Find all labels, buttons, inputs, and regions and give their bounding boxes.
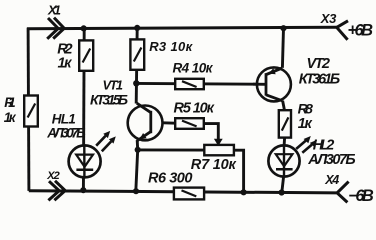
LED HL1 — [69, 145, 101, 177]
resistor R1 — [24, 96, 38, 127]
svg-text:R4 10к: R4 10к — [173, 61, 214, 76]
svg-text:1к: 1к — [298, 116, 313, 132]
svg-text:1к: 1к — [58, 56, 73, 72]
resistor R6 — [174, 188, 204, 200]
wire VT2 collector to R8 — [283, 101, 285, 111]
wire R5 to R7 wiper — [204, 124, 219, 140]
LED HL2 — [268, 145, 299, 176]
junction node VT1 emitter/R7 — [135, 147, 141, 153]
svg-text:R1: R1 — [4, 95, 16, 110]
svg-text:X1: X1 — [47, 3, 61, 18]
junction node R3/top rail — [134, 25, 140, 31]
wire R7 right lead down — [234, 150, 244, 192]
svg-text:−6В: −6В — [348, 187, 374, 205]
transistor VT2 (PNP KT361B) — [253, 67, 291, 101]
junction node HL2/bottom rail — [279, 189, 285, 195]
connector X1 chevrons — [47, 18, 64, 39]
wire R4 line to VT2 base — [136, 82, 266, 86]
svg-text:АЛ307Б: АЛ307Б — [46, 125, 86, 140]
svg-text:R5 10к: R5 10к — [174, 100, 215, 116]
junction node R3/R4/VT1 collector — [133, 80, 139, 86]
svg-text:X4: X4 — [324, 173, 339, 187]
LED HL2 emission arrows — [296, 136, 317, 153]
connector X2 chevrons — [48, 181, 65, 201]
wire R2/HL1 branch — [82, 28, 86, 190]
LED HL1 emission arrows — [96, 131, 116, 151]
svg-text:R7 10к: R7 10к — [191, 157, 237, 173]
svg-text:+6В: +6В — [348, 21, 374, 39]
resistor R3 — [130, 39, 144, 69]
svg-text:R6 300: R6 300 — [148, 171, 193, 187]
junction node R7/bottom rail — [241, 189, 247, 195]
resistor R5 — [175, 118, 204, 129]
potentiometer R7 track — [204, 145, 234, 155]
junction node VT1 emitter/bottom rail — [133, 188, 139, 194]
resistor R2 — [79, 40, 93, 70]
svg-text:R8: R8 — [298, 101, 314, 117]
svg-text:X3: X3 — [320, 11, 337, 26]
resistor R4 — [175, 79, 204, 89]
svg-text:1к: 1к — [4, 110, 17, 125]
wire R8 to HL2 — [283, 137, 286, 146]
wire bottom rail (-6V) — [29, 191, 337, 193]
wire R7 left lead — [138, 148, 205, 151]
junction node VT2 emitter/top rail — [280, 25, 286, 31]
connector X3 chevron — [337, 21, 348, 40]
junction node HL1/bottom rail — [80, 187, 86, 193]
svg-text:X2: X2 — [46, 170, 60, 182]
svg-text:АЛ307Б: АЛ307Б — [307, 152, 356, 168]
wire VT1 emitter down — [136, 140, 138, 191]
junction node R2/top rail — [81, 25, 87, 31]
potentiometer R7 wiper arrow — [214, 139, 223, 146]
svg-text:VT2: VT2 — [307, 56, 331, 72]
wire HL2 to bottom rail — [282, 177, 284, 193]
wire left rail — [27, 28, 31, 191]
wire VT1 base lead — [151, 121, 176, 125]
svg-text:R3 10к: R3 10к — [149, 39, 193, 54]
wire VT2 emitter up — [282, 28, 283, 68]
wire R3 / VT1 collector branch — [136, 28, 137, 104]
connector X4 chevron — [337, 182, 349, 203]
resistor R8 — [279, 110, 291, 137]
transistor VT1 (NPN KT315B) — [128, 103, 163, 141]
svg-text:КТ315Б: КТ315Б — [90, 92, 128, 108]
svg-text:КТ361Б: КТ361Б — [299, 71, 341, 87]
svg-text:VT1: VT1 — [103, 77, 124, 92]
wire top rail (+6V) — [27, 27, 337, 28]
